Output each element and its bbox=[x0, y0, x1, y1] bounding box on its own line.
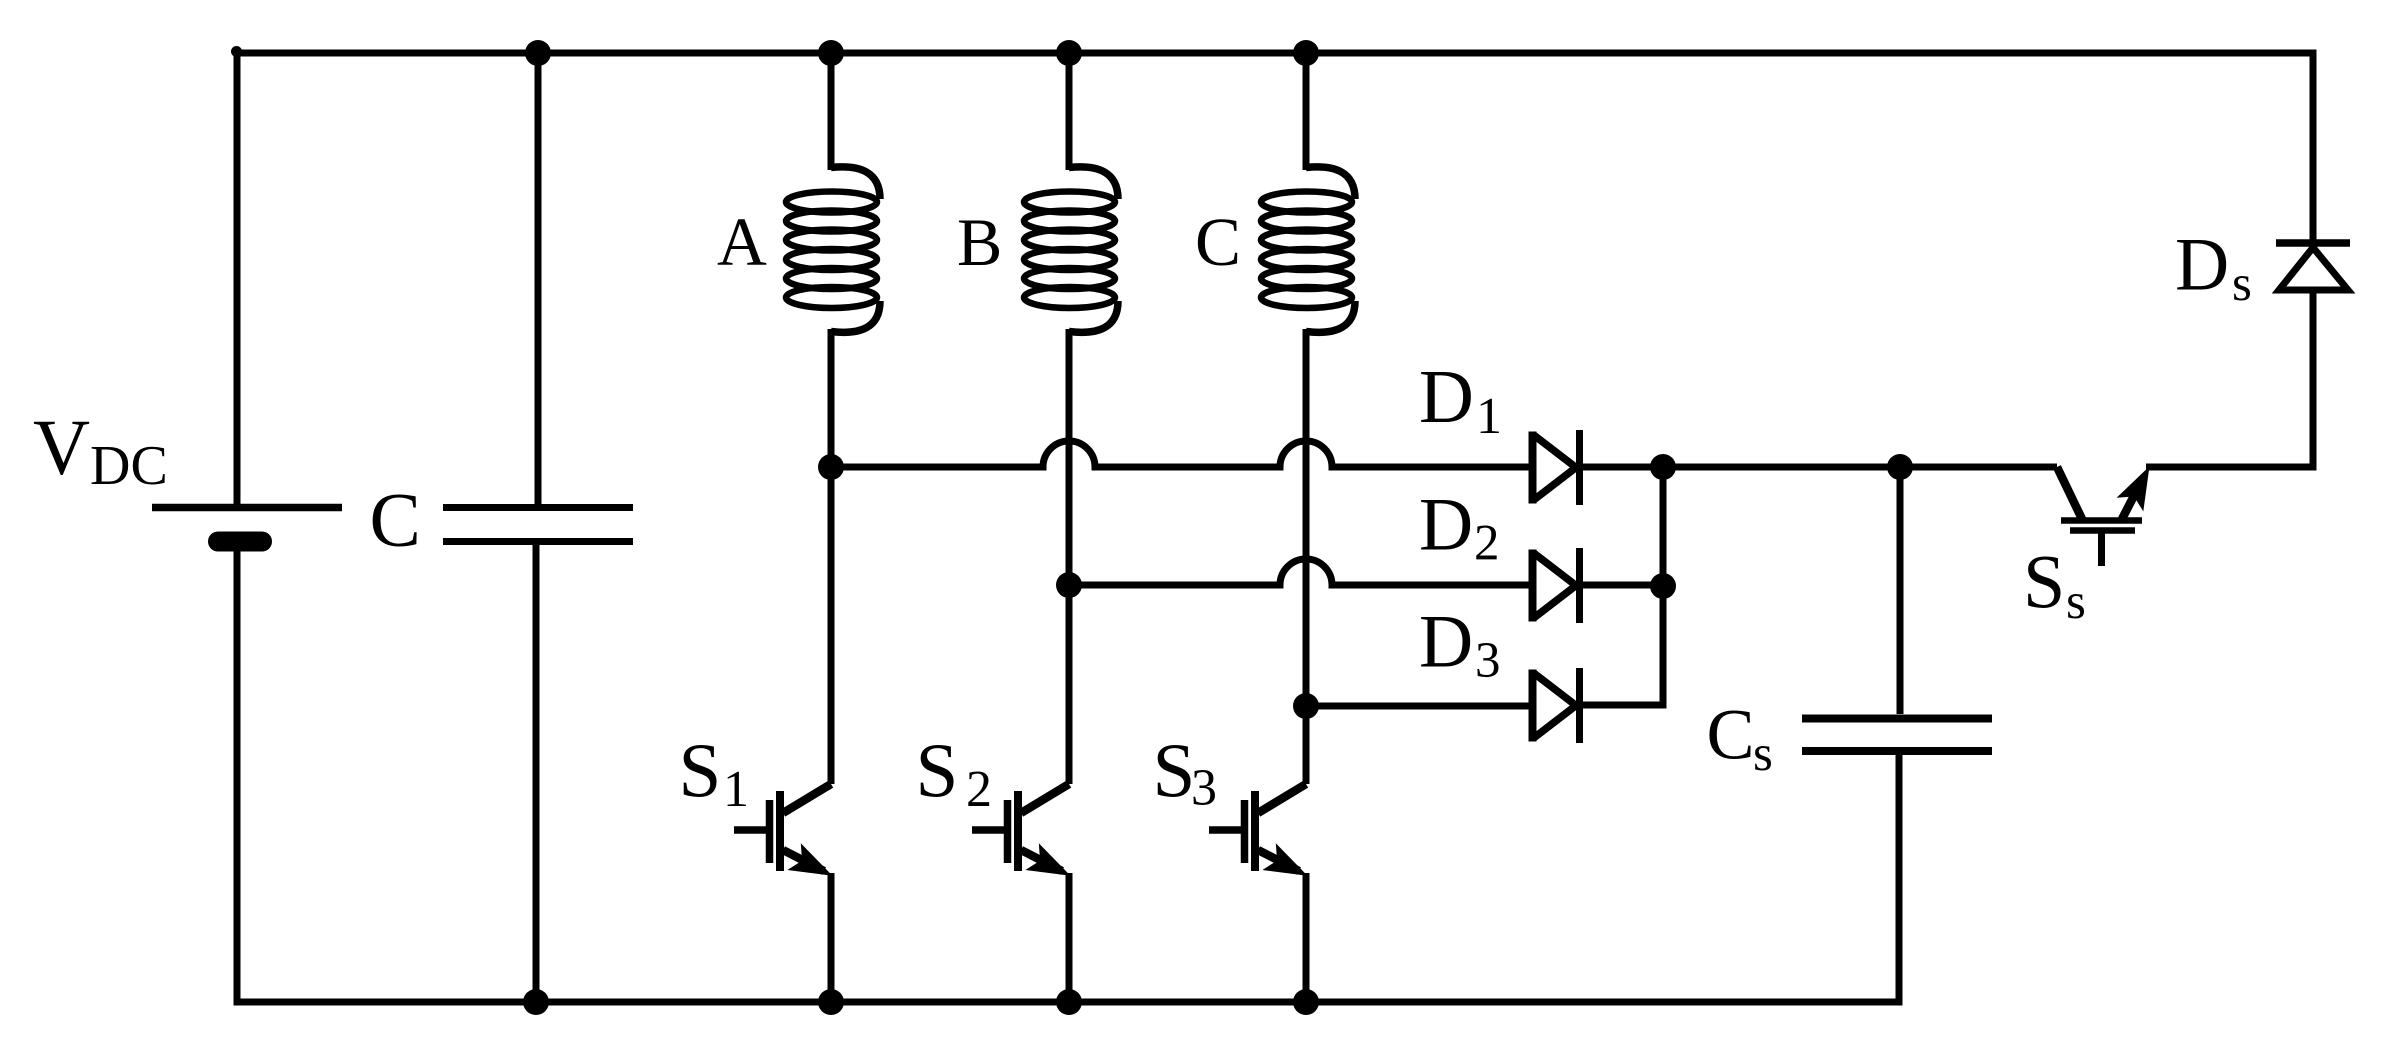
svg-text:A: A bbox=[717, 204, 767, 280]
diode D2 cathode bar bbox=[1576, 548, 1583, 623]
inductor C coil bbox=[1261, 167, 1355, 332]
node: bottom rail at S2 bbox=[1056, 989, 1082, 1015]
node: Cs top junction bbox=[1887, 454, 1913, 480]
svg-text:S: S bbox=[679, 727, 722, 813]
capacitor Cs top plate bbox=[1802, 715, 1992, 723]
svg-text:C: C bbox=[1195, 204, 1241, 280]
inductor C top wire bbox=[1303, 53, 1310, 170]
svg-text:D: D bbox=[1419, 601, 1473, 684]
svg-text:s: s bbox=[2066, 574, 2086, 630]
inductor A coil bbox=[786, 167, 880, 332]
svg-text:3: 3 bbox=[1475, 633, 1501, 689]
transistor S3 gate lead bbox=[1209, 826, 1241, 834]
transistor S1 emitter arrow bbox=[787, 843, 832, 876]
transistor Ss gate bar bbox=[2070, 527, 2135, 534]
corner nub top-left bbox=[231, 46, 242, 57]
transistor Ss collector diagonal bbox=[2057, 467, 2082, 519]
svg-text:S: S bbox=[2023, 541, 2065, 625]
wire: phase C node to D3 bbox=[1306, 703, 1532, 710]
svg-text:1: 1 bbox=[723, 761, 749, 818]
transistor S2 emitter arrow bbox=[1025, 843, 1070, 876]
node: bottom rail at S1 bbox=[818, 989, 844, 1015]
svg-text:DC: DC bbox=[90, 435, 168, 497]
node: bottom rail at S3 bbox=[1293, 989, 1319, 1015]
svg-text:s: s bbox=[1753, 726, 1773, 782]
transistor S1 emitter wire bbox=[828, 873, 835, 1002]
svg-text:D: D bbox=[2175, 224, 2229, 307]
node: D1 junction bbox=[1650, 454, 1676, 480]
node: phase C bbox=[1293, 693, 1319, 719]
svg-text:s: s bbox=[2232, 256, 2252, 312]
svg-text:D: D bbox=[1419, 484, 1473, 567]
svg-text:S: S bbox=[1153, 727, 1196, 813]
transistor S3 collector diagonal bbox=[1258, 784, 1306, 813]
wire: left vertical + top rail + right vertical down to Ds bbox=[237, 53, 2313, 504]
diode D3 cathode bar bbox=[1576, 668, 1583, 743]
diode D1 cathode bar bbox=[1576, 430, 1583, 505]
wire: battery bottom to bottom rail to Cs bottom bbox=[237, 551, 1899, 1002]
battery VDC bottom plate bbox=[218, 532, 262, 552]
capacitor C bottom plate bbox=[443, 538, 633, 545]
wire: Cs node down to top plate bbox=[1897, 467, 1904, 714]
svg-text:3: 3 bbox=[1191, 760, 1217, 817]
svg-text:C: C bbox=[370, 477, 421, 563]
diode D1 triangle bbox=[1529, 432, 1537, 504]
transistor Ss channel bar bbox=[2061, 517, 2142, 524]
transistor S2 channel bar bbox=[1014, 791, 1022, 871]
wire: Ds anode down and left to Ss emitter bbox=[2146, 290, 2313, 467]
inductor B bottom wire down to S2 bbox=[1066, 329, 1073, 784]
diode Ds cathode bar bbox=[2276, 239, 2350, 247]
node: top rail at phase A bbox=[818, 40, 844, 66]
node: top rail at capacitor C bbox=[525, 40, 551, 66]
diode Ds triangle bbox=[2279, 248, 2348, 291]
transistor S3 emitter wire bbox=[1303, 873, 1310, 1002]
transistor S3 channel bar bbox=[1251, 791, 1259, 871]
svg-text:C: C bbox=[1707, 695, 1755, 775]
transistor S2 gate bar bbox=[1004, 800, 1012, 863]
wire: D3 cathode to vertical junction wire bbox=[1583, 467, 1663, 705]
transistor Ss gate lead bbox=[2098, 533, 2105, 566]
diode D2 triangle bbox=[1529, 550, 1537, 622]
svg-text:V: V bbox=[33, 405, 90, 492]
capacitor C bottom wire bbox=[533, 545, 540, 1002]
transistor Ss emitter arrow bbox=[2117, 466, 2150, 511]
svg-text:1: 1 bbox=[1476, 388, 1502, 445]
diode D3 triangle bbox=[1529, 670, 1537, 742]
wire: D1 cathode to Ss collector bbox=[1583, 464, 2057, 471]
wire: D2 cathode to junction bbox=[1583, 582, 1663, 589]
svg-text:B: B bbox=[957, 204, 1002, 280]
transistor S1 gate lead bbox=[734, 826, 766, 834]
node: D2 junction bbox=[1650, 573, 1676, 599]
inductor C bottom wire down to S3 bbox=[1303, 329, 1310, 784]
transistor S3 gate bar bbox=[1241, 800, 1249, 863]
transistor S1 emitter diagonal bbox=[783, 850, 824, 871]
transistor S1 collector diagonal bbox=[783, 784, 831, 813]
transistor S2 collector diagonal bbox=[1021, 784, 1069, 813]
node: phase B bbox=[1056, 572, 1082, 598]
svg-text:2: 2 bbox=[966, 761, 992, 818]
transistor S1 gate bar bbox=[766, 800, 774, 863]
wire: phase B node to D2 with hop over C bbox=[1069, 559, 1532, 585]
capacitor C top wire bbox=[535, 53, 542, 504]
transistor S1 channel bar bbox=[776, 791, 784, 871]
battery VDC top plate bbox=[152, 504, 342, 512]
wire: phase A node to D1 with hops over B and C bbox=[831, 441, 1532, 467]
transistor S2 emitter diagonal bbox=[1021, 850, 1062, 871]
inductor B coil bbox=[1024, 167, 1118, 332]
node: top rail at phase C bbox=[1293, 40, 1319, 66]
transistor S3 emitter diagonal bbox=[1258, 850, 1299, 871]
inductor A bottom wire down to S1 bbox=[828, 329, 835, 784]
transistor S3 emitter arrow bbox=[1262, 843, 1307, 876]
node: phase A bbox=[818, 454, 844, 480]
capacitor C top plate bbox=[443, 504, 633, 511]
node: bottom rail at capacitor C bbox=[523, 989, 549, 1015]
transistor S2 emitter wire bbox=[1066, 873, 1073, 1002]
transistor Ss emitter diagonal bbox=[2122, 486, 2139, 519]
svg-text:D: D bbox=[1419, 355, 1474, 439]
inductor B top wire bbox=[1066, 53, 1073, 170]
transistor S2 gate lead bbox=[972, 826, 1004, 834]
svg-text:2: 2 bbox=[1474, 516, 1500, 572]
node: top rail at phase B bbox=[1056, 40, 1082, 66]
svg-text:S: S bbox=[916, 727, 959, 813]
capacitor Cs bottom plate bbox=[1802, 747, 1992, 755]
inductor A top wire bbox=[828, 53, 835, 170]
